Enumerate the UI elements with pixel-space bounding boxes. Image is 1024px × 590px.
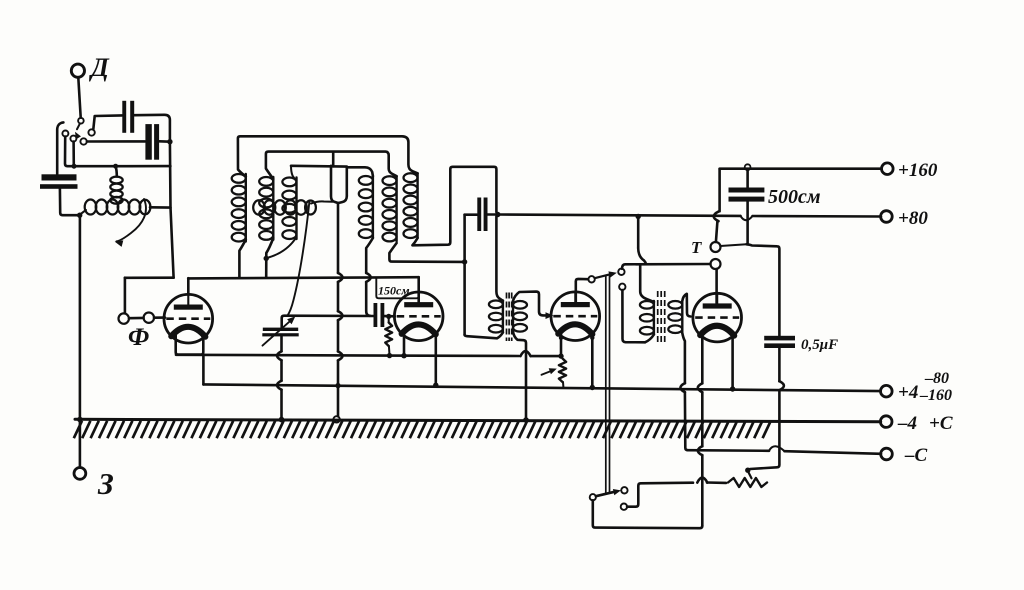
wire: hook to grounded capacitor C3 [57, 122, 63, 173]
wire: C1 right to corner and down [134, 115, 170, 141]
coil T3 primary [489, 301, 503, 333]
wire: S2 lower contact to T4 primary bottom [622, 290, 645, 342]
T4 core laminations [658, 291, 665, 342]
grid condenser 150cm plates [374, 303, 385, 327]
wire: antenna down-lead from terminal [78, 77, 80, 117]
ground bus hatching [74, 421, 771, 438]
junction: coil D wire on coupling vertical [462, 259, 467, 264]
ground bus line [75, 419, 881, 421]
switch S3 upper contact [621, 487, 627, 493]
capacitor C2 (antenna series) plates [145, 124, 159, 160]
switch S1 moving contact small circle [78, 118, 84, 124]
wire: filament line (upper) [176, 351, 561, 356]
wire: anode bus right segment [188, 277, 419, 278]
wire: coil B2 bottom converge [269, 237, 297, 258]
coil T4 secondary [668, 301, 682, 333]
terminal: +4 [881, 385, 893, 397]
mechanical link curve to rotor [287, 201, 309, 317]
rotor coil of T1 (horizontal winding) [253, 200, 316, 214]
wire: coil L1 right end to vertical [150, 206, 170, 209]
junction: coil L1 top lead on switch bus [113, 164, 118, 169]
junction: B+ node [495, 212, 500, 217]
svg-text:–80: –80 [924, 370, 949, 387]
coil D [383, 176, 397, 241]
wire: C2 right to junction [159, 140, 170, 143]
junction: bias tap [745, 468, 750, 473]
wire: coupling cap right lead [488, 213, 498, 216]
rheostat slider arrow [542, 368, 557, 375]
wire: coil D bottom to coupling node [389, 243, 463, 262]
wire: V3 right filament leg [591, 334, 594, 387]
svg-text:+160: +160 [898, 160, 938, 181]
wire: coil A bottom to anode bus [239, 240, 245, 277]
wire: V2 left filament leg [403, 334, 406, 356]
label: earth terminal letter [97, 466, 114, 501]
wire: V4 left filament leg down to switch return [698, 334, 703, 526]
wire: rotor bus horizontal [291, 165, 347, 168]
label box for 150cm capacitor [376, 277, 419, 298]
junction: earth node [77, 213, 82, 218]
junction: V4 right leg upper [730, 333, 735, 338]
wire: V3 left filament leg [560, 334, 563, 356]
coil T4 primary [640, 301, 654, 335]
junction: T3 secondary on ground bus [523, 417, 529, 423]
label: 500cm [768, 186, 821, 208]
wire: 500cm bottom lead down past +80 rail [746, 202, 749, 243]
tube V4 [693, 293, 742, 342]
wire: V4 anode lead from T jack [715, 269, 718, 303]
wire: jack to V1 grid [154, 316, 165, 319]
T3 core laminations [507, 293, 512, 342]
wire: bias tap stem [748, 471, 752, 478]
wire: coil C bottom to V2 grid wire [366, 238, 373, 316]
wire: tuning stem to ground bus [338, 203, 343, 416]
phones jack upper circle [711, 242, 721, 252]
svg-text:–4: –4 [897, 413, 917, 434]
terminal: +160 [882, 163, 894, 175]
junction: V2 right leg on grid-return line [433, 383, 438, 388]
tube V1 filament boot [176, 333, 204, 355]
wire: S3 lower contact to bias resistor wire [627, 478, 726, 507]
junction: earth lead on ground bus [77, 417, 83, 423]
terminal: +80 [881, 211, 893, 223]
switch S1 contact 1 [62, 131, 68, 137]
wire: contact3 row to capacitor C2 [87, 140, 145, 143]
wire: between jack circles [129, 317, 144, 320]
tube V3 [551, 292, 600, 341]
label: +160 [898, 160, 938, 181]
svg-text:З: З [97, 466, 114, 501]
wire: V2 right filament leg [434, 335, 437, 386]
junction circle: 500cm tap on +160 rail [745, 164, 751, 170]
junction: coil B/B2 bottoms [264, 256, 269, 261]
wire: V2 anode lead [417, 277, 420, 303]
wire: bypass node to 0.5uF top [747, 244, 780, 335]
wire: stub from inner link to rotor bus [332, 153, 335, 167]
switch S2 pivot circle [588, 276, 594, 282]
wire: V1 boot right side down to grid-return line [202, 355, 205, 385]
wire: T3 secondary top to V3 grid [513, 292, 554, 319]
svg-text:Д: Д [89, 53, 110, 82]
wire: inner top link (coil B top to coil D top) [266, 152, 397, 179]
wire: B+ feed down to T3 primary top [496, 217, 503, 301]
switch S1 arm with arrowhead [75, 124, 81, 140]
coil A (T1 primary) [232, 174, 246, 242]
label: -80 [924, 370, 949, 387]
filament rheostat R2 [559, 359, 566, 388]
terminal: earth (3) [74, 468, 86, 480]
wire: T3 primary bottom to coupling vertical [465, 333, 503, 339]
wire: antenna vertical down to detector bus [171, 208, 174, 278]
wire: T3 secondary bottom to ground bus [513, 332, 526, 420]
wire: V3 anode lead up to switch pivot [576, 279, 588, 302]
wire: -C line [688, 446, 881, 454]
label: antenna terminal letter [89, 53, 110, 82]
wire: 0.5uF bottom down to bias tap [750, 348, 784, 469]
junction: V1 filament right [201, 333, 206, 338]
switch S3 arm [596, 489, 621, 496]
tube V2 [394, 292, 443, 341]
wire: +160 rail [720, 167, 882, 170]
switch S2 arm [595, 271, 617, 278]
label: +4 [898, 382, 918, 403]
coil E [404, 173, 418, 238]
phone jack lower circle [144, 313, 154, 323]
switch S2 upper contact [618, 269, 624, 275]
wire: coupling cap left lead [465, 213, 477, 216]
wire: T4 secondary bottom to -C line [680, 333, 687, 450]
wire: rotor right hook [311, 201, 333, 203]
variometer arrow through L1 [115, 199, 146, 247]
coil L2 (small vertical winding) [110, 166, 122, 204]
wire: coil C riser [339, 167, 347, 203]
terminal: -C [881, 448, 893, 460]
switch S1 contact 2 [70, 136, 76, 142]
svg-text:+4: +4 [898, 382, 918, 403]
wire: C4 bottom to ground bus [277, 337, 282, 420]
wire: coupling node vertical [463, 215, 466, 335]
junction: grid leak top [386, 314, 391, 319]
svg-text:0,5μF: 0,5μF [801, 337, 838, 353]
wire: S2 upper contact to anode node wire [622, 264, 711, 269]
wire: +80 junction down to T4 primary top [638, 217, 654, 303]
coil B (T1 secondary) [259, 177, 273, 240]
wire: contact1 stem and bottom bus of switch [65, 137, 170, 167]
phones jack lower circle [711, 259, 721, 269]
coil B2 (T1 tuned winding) [282, 178, 296, 240]
wire: C3 bottom to earth-line junction [60, 189, 78, 215]
junction: stem2 on switch bus [72, 164, 77, 169]
wire: V1 anode lead to anode bus [187, 278, 190, 294]
junction: tuning stem on filament return [335, 383, 340, 388]
label: 0.5uF [801, 337, 838, 353]
junction: T4 primary top on +80 rail [636, 214, 641, 219]
switch S1 contact 3 [80, 138, 86, 144]
wire: +160 rail corner down to T jack [714, 169, 720, 242]
wire: outer top link (coil A top to coil E top) [238, 136, 418, 176]
svg-text:–С: –С [904, 445, 928, 466]
svg-text:500см: 500см [768, 186, 821, 208]
wire: coil B bottom lead [266, 238, 273, 277]
coil C [359, 176, 373, 238]
wire: V4 right filament leg [731, 335, 734, 389]
junction: grid leak on filament line [387, 353, 392, 358]
label: +80 [898, 208, 928, 229]
wire: right vertical down to coil tap [169, 142, 172, 208]
terminal circle: tuning stem at ground bus [333, 416, 339, 422]
bias resistor R3 [728, 478, 767, 487]
capacitor 500cm plates [729, 188, 765, 202]
terminal: antenna (A) [71, 64, 84, 77]
capacitor 0.5uF plates [764, 336, 795, 348]
wire: grid-return line (lower) [203, 384, 880, 391]
wire: tuning stem down from rotor bus [331, 166, 338, 203]
junction: V3 right leg on grid-return line [590, 385, 595, 390]
wire: earth lead down to ground bus and terminal [79, 215, 82, 467]
label: -160 [919, 387, 952, 404]
junction: V3 leg node upper [559, 336, 563, 340]
variable capacitor C4 plates [262, 328, 298, 337]
capacitor C3 (antenna shunt) plates [40, 174, 78, 189]
capacitor C1 (antenna series) plates [122, 101, 134, 133]
wire: coil E bottom feed [412, 167, 496, 246]
junction: V3 right leg node upper [590, 336, 594, 340]
label: -C [904, 445, 928, 466]
coil L1 (antenna variometer horizontal winding) [81, 200, 151, 215]
wire: contact2 stem [72, 142, 75, 167]
phone jack upper circle [119, 313, 129, 323]
wire: T jack upper to bypass node [720, 244, 746, 246]
switch S2 lower contact [619, 284, 625, 290]
label: -4 +C [897, 413, 953, 434]
junction: C1/C2 right node [167, 139, 172, 144]
wire: 500cm top lead [746, 170, 749, 187]
junction: V4 left leg [700, 331, 705, 336]
junction: V3 left leg on filament line [558, 353, 563, 358]
switch gang rod (twin lines) [606, 275, 610, 492]
wire: coil C top link [347, 167, 373, 176]
wire: T4 primary bottom lead [645, 335, 654, 343]
svg-text:+80: +80 [898, 208, 928, 229]
tube V1 (detector triode) [164, 294, 213, 343]
svg-text:+С: +С [929, 413, 953, 434]
wire: grid condenser to V2 grid [385, 315, 395, 318]
junction: V2 left leg on filament line [401, 353, 406, 358]
wire: plate line (+80 rail) [498, 215, 881, 221]
wire: T4 secondary top to V4 grid [682, 294, 690, 317]
wire: contact4 up to capacitor C1 row [93, 115, 122, 129]
wire: grid wire from variable capacitor to grid condenser [282, 316, 374, 328]
label: phone jack [128, 324, 149, 351]
svg-text:Т: Т [691, 238, 702, 257]
junction: V4 right leg on grid-return line [730, 386, 735, 391]
switch S3 pivot circle [590, 494, 596, 500]
switch S3 lower contact [621, 504, 627, 510]
switch S1 contact 4 [88, 129, 94, 135]
svg-text:–160: –160 [919, 387, 952, 404]
variable capacitor C4 arrow [263, 316, 296, 345]
wire: jack riser (anode bus left end down) [124, 278, 127, 314]
label: T jack [691, 238, 702, 257]
wire: detector bus left segment [125, 276, 174, 279]
coupling capacitor C5 plates [477, 198, 487, 232]
svg-text:Ф: Ф [128, 324, 149, 351]
wire: S3 pivot return [593, 500, 703, 528]
coil T3 secondary [513, 301, 527, 332]
grid leak resistor R1 [385, 318, 392, 354]
wire: coil B2 top to rotor bus [291, 166, 295, 179]
junction: C4 on ground bus [279, 417, 285, 423]
terminal: -4 [880, 416, 892, 428]
